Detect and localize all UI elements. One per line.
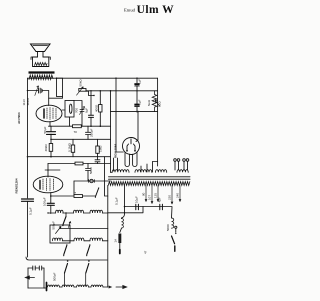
svg-text:107: 107 [148,195,152,200]
svg-text:4μF: 4μF [157,197,161,202]
svg-text:250pF: 250pF [90,128,94,137]
wire [74,286,77,288]
coil 5000 column x121.5 [121,207,124,219]
svg-text:5000: 5000 [89,167,93,174]
coil row2 group a [53,238,63,241]
coil row2 group b [74,238,84,241]
tap 220 [171,185,173,204]
capacitor C x88 between 126/138 [86,126,91,139]
wire [60,286,63,288]
wire rail y229 [60,228,108,230]
svg-text:125: 125 [154,193,158,198]
svg-text:50kΩ: 50kΩ [79,79,83,87]
transformer winding row1 group A [111,170,130,173]
antenna arrow [28,277,35,279]
wire row2 [63,240,75,242]
coil row1 group c [90,210,103,213]
svg-text:1μF: 1μF [138,99,142,104]
svg-text:47: 47 [144,250,148,254]
svg-text:Ulm W: Ulm W [137,4,175,16]
coil bottom group c [77,285,89,287]
capacitor column x97.5 [95,157,100,164]
capacitor C x88 [86,164,91,182]
vertical wire x107.8 [107,185,109,287]
transformer primary winding [108,182,190,186]
coil bottom group d [91,285,103,287]
svg-text:50μF: 50μF [43,126,47,133]
wire row2 right [103,240,108,242]
svg-text:0,1μF: 0,1μF [114,197,118,205]
transformer secondary stubs [114,158,118,171]
wire left rail [27,78,29,198]
wire bottom rail of box [26,257,107,260]
svg-text:RENS1264: RENS1264 [15,178,19,193]
wire rail y196 [51,195,96,197]
resistor 40k column x51 [49,144,53,152]
wire tube2 top stub [47,164,49,178]
wire to arrowhead [103,286,108,288]
wire row1 left [48,212,56,214]
wire grid rail y163.5 [48,163,111,165]
tap 107 [151,185,153,203]
speaker magnet box [33,57,49,67]
wire row1 [63,212,74,214]
coil row1 group a [56,210,64,213]
trimmer arrow osc [56,227,62,234]
antenna left wire [27,268,29,288]
wire right rail x157.6 [153,78,158,172]
capacitor mains x137 [136,204,139,209]
primary left lead to rail [124,185,126,206]
wire top rail [28,77,158,79]
coil bottom group a [48,285,60,287]
svg-text:500pF: 500pF [53,272,57,281]
tube V1 electrodes [47,108,56,120]
speaker baffle bar [29,71,55,73]
wire rail181 left drop [73,181,75,195]
tap 240 [179,185,181,201]
svg-text:700: 700 [75,108,79,113]
choke L-drossel zigzag on top rail [29,75,53,80]
tap 90 [145,185,147,201]
resistor R-tube2 bottom [74,195,83,198]
tube V1 AF7 envelope [36,105,62,122]
vertical wire x104.5 [105,157,108,196]
wire row1 [84,212,91,214]
svg-text:Emud: Emud [124,8,136,13]
dial pointer arrow [116,286,124,288]
rectifier filament hook [130,139,132,144]
transformer winding row1 group C [156,170,167,173]
switch S-b1 [64,246,67,255]
IF coil box [57,78,63,96]
wire row1 to right [103,212,108,214]
mains rail y207 [125,206,173,208]
heater wire y212.8 [108,207,143,213]
vertical wire x116 [116,78,123,152]
svg-text:RGN 1064: RGN 1064 [114,143,118,158]
svg-text:0,1μF: 0,1μF [29,207,33,215]
wire rail y91 [86,90,158,92]
transformer winding row1 group D [177,170,188,173]
wire rail y112 [111,111,158,113]
svg-text:0,1MΩ: 0,1MΩ [67,142,71,152]
wire grid feed [28,91,49,106]
wire rail y126 [49,125,111,127]
rectifier anodes [127,144,135,151]
switch S-c2 below rail [86,264,89,274]
capacitor 0.1uF left column [22,199,34,201]
coil bottom group b [62,285,74,287]
node left junction [27,90,29,92]
switch S-mid [96,189,99,197]
svg-text:240: 240 [176,193,180,198]
plug tip [119,250,121,254]
lamp terminal stubs [175,162,188,171]
svg-text:40kΩ: 40kΩ [44,144,48,152]
svg-text:500pF: 500pF [52,221,56,230]
svg-text:10μF: 10μF [135,196,139,203]
svg-text:6μF: 6μF [84,108,88,113]
antenna right wire [43,268,45,288]
rectifier tube RGN1064 [123,138,140,155]
vertical wire x110.5 [110,91,112,173]
tube V2 RENS1264 envelope [33,176,63,193]
wire box to grid [49,97,63,99]
rectifier filament loops [125,153,129,167]
detector box right of tube1 [62,109,65,111]
wire rail y156.5 [28,156,111,158]
trimmer cap column x82 [74,101,84,127]
wire rail y138 [51,138,111,140]
coil row1 group b [74,210,84,213]
mains switch [175,226,177,228]
capacitor 1uF upper x137 [135,78,140,91]
wire tube1 cathode down [49,122,51,127]
resistor R-126 inline [73,125,82,128]
svg-text:400Ω: 400Ω [94,104,98,112]
capacitor 6uF column x91 [90,91,92,115]
switch S-c1 below rail [65,264,68,274]
svg-text:100μF: 100μF [42,197,46,206]
ferrite bar [46,283,48,291]
speaker neck [38,52,44,58]
svg-text:5000: 5000 [166,224,170,231]
capacitor 100uF column x50.8 [50,193,52,203]
wire antenna bottom [28,287,45,289]
svg-text:1μF: 1μF [138,79,142,84]
speaker field coil zigzag [35,63,48,66]
node top-left junction [56,77,58,79]
svg-text:AF7/964: AF7/964 [17,112,21,124]
svg-text:90: 90 [142,192,146,196]
tube V2 electrodes [43,179,54,191]
resistor column x73 [72,139,74,145]
switch S-osc1 [63,217,66,225]
resistor column x100 upper [99,91,101,105]
wire grid-leak rail y181 [74,180,111,182]
wire [89,286,92,288]
potentiometer Netz [152,91,157,112]
oscillator box [50,225,70,243]
transformer core [109,177,191,179]
capacitor mains x161 [160,204,163,209]
svg-text:220: 220 [168,195,172,200]
speaker LS cone [31,44,51,52]
svg-text:1A: 1A [114,239,118,243]
node y126 junctions [90,125,92,127]
switch S-b2 [87,246,90,255]
tap 125 [157,185,159,201]
capacitor 1uF lower x137 [135,91,140,112]
svg-text:11mA: 11mA [26,98,30,106]
trimmer capacitor in grid feed [39,88,41,93]
fuse 1A [118,234,121,244]
antenna series capacitors [28,267,44,269]
resistor column x97 lower [97,139,99,146]
transformer winding row1 group B [135,170,152,173]
coil row2 group c [90,238,103,241]
svg-text:Netz: Netz [147,99,151,106]
svg-text:1MΩ: 1MΩ [99,145,103,152]
svg-text:50Ω: 50Ω [158,101,162,107]
wire row2 [84,240,90,242]
arrow small up [69,222,71,228]
grid cap symbol [90,179,93,182]
resistor inline grid rail [75,162,83,165]
rectifier anode wire [136,112,138,142]
svg-text:70: 70 [74,130,78,134]
